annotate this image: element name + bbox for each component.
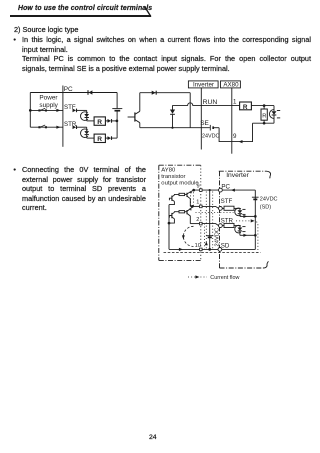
current arrow into terminal 9: [239, 140, 243, 143]
svg-text:transistor: transistor: [161, 174, 185, 180]
terminal PC circle: [219, 188, 223, 192]
svg-text:Power: Power: [39, 95, 58, 102]
node junction diode branch: [171, 127, 173, 129]
svg-text:AX80: AX80: [223, 82, 239, 89]
node junction Q2 emitter / 1 wire: [191, 205, 194, 208]
header rule: [10, 15, 151, 17]
transistor T2 (photocoupler driver): [169, 212, 174, 218]
resistor R1 (AY80): [179, 193, 185, 195]
wire R to relay loop: [251, 105, 274, 107]
resistor R STF (inverter): [222, 206, 240, 210]
node junction loop bottom: [263, 122, 266, 125]
svg-text:R: R: [262, 113, 266, 119]
wire power-supply left edge: [29, 93, 31, 128]
optocoupler U2 envelope: [81, 129, 88, 138]
diode D-PC (cathode left): [88, 90, 92, 95]
wire loop bottom: [253, 122, 275, 124]
node junction power-supply/STF: [29, 109, 32, 112]
current flow dotted horizontal (to STF): [196, 212, 234, 214]
terminal square 10: [200, 248, 203, 251]
current flow dashed arc (around terminal 10): [183, 226, 193, 246]
wire T1 emitter to rail: [169, 201, 174, 204]
node junction battery top: [209, 189, 211, 191]
box AX80: [221, 81, 241, 89]
transistor T1 (photocoupler driver): [169, 195, 174, 201]
wire common rail to terminal 10 / SD: [169, 248, 255, 250]
wire LED drop STF: [86, 110, 88, 114]
wire vertical drop to SE: [189, 93, 191, 128]
svg-text:2: 2: [196, 217, 199, 223]
LED STR (optocoupler U2): [84, 131, 94, 138]
svg-text:SE: SE: [200, 120, 209, 127]
page number: [149, 434, 157, 441]
wire STF input: [30, 109, 63, 111]
label 24VDC (SD): [260, 197, 278, 211]
svg-text:(SD): (SD): [260, 205, 271, 211]
LED STF (optocoupler U4): [238, 208, 243, 216]
optocoupler U4 output stubs: [242, 209, 245, 214]
switch STR contact: [38, 125, 47, 128]
svg-text:24VDC: 24VDC: [202, 133, 219, 139]
wire T2 collector: [174, 211, 179, 214]
wire LED drop STR: [86, 127, 88, 131]
wire T2 emitter to rail: [169, 219, 174, 223]
wire emitter / SE line: [140, 123, 210, 128]
optocoupler U4 envelope: [235, 208, 241, 216]
current flow arrow right (STF return): [251, 219, 255, 222]
LED STR (optocoupler U5): [238, 226, 243, 236]
resistor R (STR): [94, 134, 105, 143]
wire STR return: [240, 234, 255, 236]
box Inverter cut hook bottom: [263, 261, 268, 268]
current arrow toward PC: [231, 189, 235, 192]
transistor Q1 (open collector output): [128, 111, 140, 122]
svg-text:R: R: [97, 119, 102, 126]
wire terminal9-PC-supply: [194, 189, 256, 191]
LED STF (optocoupler U1): [84, 114, 94, 121]
box Inverter: [188, 81, 218, 89]
node junction battery bottom: [208, 248, 211, 251]
wire terminal2 to STR: [202, 224, 219, 226]
current flow arrow up (external supply): [205, 241, 208, 245]
node AY80 terminal column (dotted): [200, 165, 202, 260]
wire internal supply (right side): [254, 190, 256, 249]
current flow dotted hook down (right): [256, 222, 258, 253]
current arrow STR: [56, 126, 60, 129]
node inverter boundary line: [200, 88, 202, 150]
resistor R2 (AY80): [179, 211, 185, 213]
current flow dashed return (SD to module): [164, 252, 261, 254]
terminal square 9: [200, 189, 203, 192]
svg-text:output module: output module: [161, 181, 199, 187]
node junction STF return / supply: [254, 215, 257, 218]
svg-text:24VDC: 24VDC: [260, 197, 278, 203]
svg-text:9: 9: [233, 133, 237, 140]
wire terminal 1 output: [190, 205, 199, 207]
optocoupler U3 output stubs: [277, 111, 280, 118]
svg-text:1: 1: [233, 99, 237, 106]
terminal STF circle: [219, 207, 223, 211]
current arrow toward terminal 10: [179, 248, 183, 251]
wire terminal 2 output: [190, 223, 199, 225]
node PC bus (inverter boundary line): [62, 86, 64, 147]
svg-text:R: R: [243, 104, 248, 111]
node junction STR return / supply: [254, 234, 257, 237]
node junction T2 emitter / rail: [168, 222, 171, 225]
svg-text:RUN: RUN: [203, 99, 218, 106]
diode D1 STF: [73, 109, 87, 113]
diode D2 STF: [105, 119, 117, 123]
switch STF contact: [38, 108, 47, 111]
battery internal 24V (circuit A): [112, 109, 122, 111]
optocoupler U1 envelope: [81, 112, 88, 121]
wire AY80 common rail: [168, 205, 170, 250]
resistor R (STF): [94, 117, 105, 126]
box AY80 module (dash-dot): [159, 165, 201, 260]
node junction loop top: [263, 104, 266, 107]
svg-text:PC: PC: [64, 86, 73, 93]
wire PC: [30, 92, 117, 94]
current flow dotted pair (AY80 output): [191, 192, 194, 206]
wire 24V rail: [116, 93, 118, 139]
diode D4 (flyback): [170, 105, 175, 127]
current flow arrow on arc: [182, 235, 185, 239]
svg-text:SD: SD: [221, 243, 230, 250]
optocoupler U5 output stubs: [242, 227, 245, 232]
svg-text:AY80: AY80: [161, 168, 176, 174]
header title: [18, 5, 152, 12]
battery external 24VDC: [206, 190, 213, 249]
wire T1 collector: [174, 193, 179, 196]
body text block 1: [14, 25, 79, 34]
wire STR input: [30, 126, 63, 128]
resistor R STR (inverter): [222, 223, 240, 227]
wire STF return: [240, 215, 255, 217]
svg-text:supply: supply: [39, 102, 58, 109]
node junction STF/24V rail: [116, 120, 119, 123]
LED AX80 (optocoupler U3): [272, 106, 277, 124]
diode D3 (top wire): [152, 91, 157, 95]
battery external 24VDC (circuit B): [210, 125, 219, 131]
svg-text:10: 10: [195, 243, 201, 249]
transistor Q2 (AY80 output, PNP): [185, 207, 193, 223]
optocoupler U3 envelope: [269, 110, 273, 119]
current arrow STF return: [243, 215, 247, 218]
current flow dotted (STF return): [236, 220, 252, 222]
svg-text:PC: PC: [221, 183, 230, 190]
optocoupler U5 envelope: [235, 225, 241, 233]
svg-text:Current flow: Current flow: [210, 275, 239, 281]
current arrow STF: [56, 109, 60, 112]
box Inverter (dash-dot, cut right): [219, 171, 267, 268]
wire terminal1 to STF: [202, 206, 219, 208]
terminal STR circle: [219, 224, 223, 228]
wire RUN with crossover hop: [173, 103, 240, 106]
resistor R (AX80 parallel): [261, 106, 267, 124]
svg-text:Inverter: Inverter: [226, 172, 249, 179]
node junction Q1 emitter / 9 wire: [192, 189, 195, 192]
body text block 2 (second bullet): [13, 165, 16, 174]
node AX80 boundary line: [231, 88, 233, 154]
battery internal 24VDC (SD): [252, 197, 259, 199]
header diagonal tick: [142, 4, 154, 18]
resistor R (AX80 series): [240, 102, 252, 111]
svg-text:1: 1: [196, 200, 199, 206]
current flow dotted vertical (loop return): [204, 224, 206, 249]
wire SE return to terminal 9: [219, 123, 252, 141]
current arrow STR return: [243, 234, 247, 237]
terminal SD circle: [218, 248, 222, 252]
diode D1 STR: [73, 125, 87, 129]
terminal square 1: [200, 205, 203, 208]
svg-text:Inverter: Inverter: [193, 82, 214, 89]
terminal square 2: [200, 222, 203, 225]
diode D2 STR: [105, 136, 117, 140]
svg-text:R: R: [97, 136, 102, 143]
svg-text:STF: STF: [221, 198, 233, 205]
wire collector up: [140, 93, 190, 112]
svg-text:9: 9: [197, 184, 200, 190]
box Inverter cut hook top: [267, 171, 271, 178]
current flow dotted verticals (external supply): [206, 192, 212, 249]
legend current flow: [188, 275, 207, 278]
svg-text:24VDC: 24VDC: [214, 228, 220, 247]
transistor Q1 (AY80 output, PNP): [185, 191, 193, 207]
